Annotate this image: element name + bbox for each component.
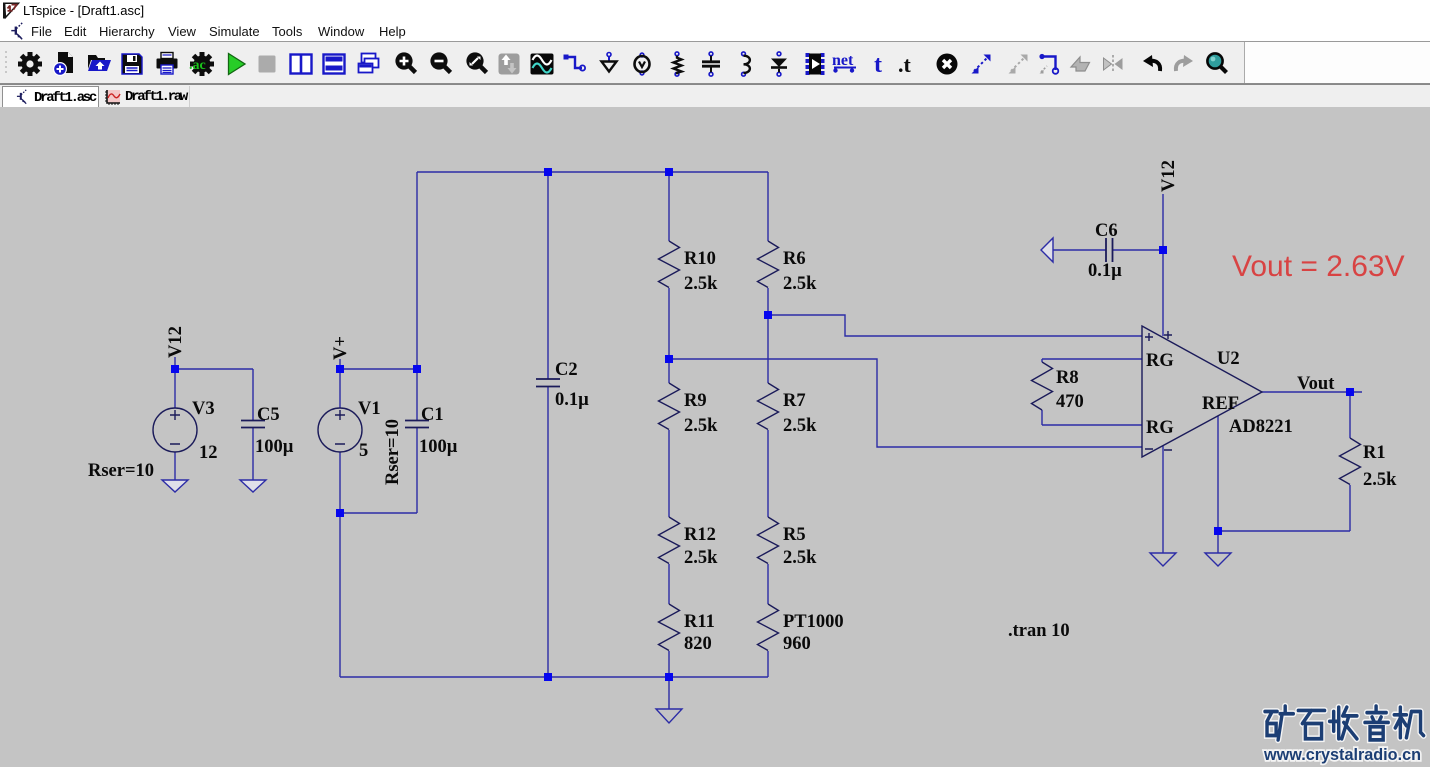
ground flag at C6 — [1041, 238, 1053, 262]
toolbar: .ac gear — [189, 51, 215, 77]
resistor PT1000 body — [758, 604, 779, 651]
toolbar: move — [968, 51, 994, 77]
toolbar: diode — [766, 51, 792, 77]
ground under REF — [1205, 553, 1231, 566]
svg-text:R6: R6 — [783, 249, 806, 269]
title bar — [0, 0, 1430, 21]
toolbar: inductor — [733, 51, 759, 77]
svg-text:C1: C1 — [421, 405, 444, 425]
svg-text:470: 470 — [1056, 392, 1084, 412]
svg-text:R8: R8 — [1056, 368, 1079, 388]
svg-text:RG: RG — [1146, 418, 1174, 438]
tab bar — [0, 84, 1430, 108]
toolbar: open — [86, 51, 112, 77]
resistor R10 body — [659, 241, 680, 288]
LTspice app logo — [2, 1, 21, 20]
wire V+ label stub and V1 top lead — [339, 359, 341, 408]
resistor R5 body — [758, 517, 779, 564]
toolbar: find — [1204, 51, 1230, 77]
toolbar: zoom in — [393, 51, 419, 77]
svg-text:2.5k: 2.5k — [783, 548, 817, 568]
svg-text:R12: R12 — [684, 525, 716, 545]
wire V3 node to C5 — [175, 368, 253, 370]
toolbar: text — [867, 51, 893, 77]
toolbar: net label — [832, 51, 858, 77]
svg-text:Rser=10: Rser=10 — [88, 461, 154, 481]
svg-text:R1: R1 — [1363, 443, 1386, 463]
toolbar: run — [223, 51, 249, 77]
ground under V3 — [162, 480, 188, 492]
wire V12 right rail — [1162, 194, 1164, 336]
svg-text:2.5k: 2.5k — [684, 274, 718, 294]
svg-text:0.1µ: 0.1µ — [555, 390, 589, 410]
svg-text:.ac: .ac — [189, 58, 206, 73]
svg-text:Vout: Vout — [1297, 374, 1335, 394]
wire V12 label stub and V3 top lead — [174, 357, 176, 408]
toolbar: print — [154, 51, 180, 77]
resistor R8 body — [1032, 362, 1053, 410]
toolbar: voltage source — [629, 51, 655, 77]
capacitor C2 plates — [536, 379, 560, 387]
svg-text:RG: RG — [1146, 351, 1174, 371]
wire REF pin down — [1217, 416, 1219, 553]
wire left divider column — [668, 172, 670, 677]
wire node R6R7 to op-amp plus input — [768, 315, 1142, 336]
svg-text:2.5k: 2.5k — [783, 274, 817, 294]
toolbar: zoom out — [428, 51, 454, 77]
svg-text:.t: .t — [898, 52, 912, 77]
wire C2 column — [547, 172, 549, 677]
toolbar: new schematic — [52, 51, 78, 77]
wire bottom ground rail — [340, 676, 768, 678]
node junction squares — [544, 168, 552, 176]
wire R1 bottom to REF node — [1218, 530, 1350, 532]
svg-text:2.5k: 2.5k — [684, 548, 718, 568]
wire V3 bottom lead — [174, 452, 176, 480]
toolbar: ground label — [596, 51, 622, 77]
toolbar: resistor — [664, 51, 690, 77]
wire node R10R9 to op-amp minus input — [669, 359, 1142, 447]
toolbar: zoom extents — [464, 51, 490, 77]
toolbar: redo (disabled) — [1171, 51, 1197, 77]
toolbar: drag — [1036, 51, 1062, 77]
capacitor C5 plates — [241, 421, 265, 428]
toolbar: spice directive — [895, 51, 921, 77]
toolbar: settings gear — [17, 51, 43, 77]
resistor R12 body — [659, 517, 680, 564]
resistor R9 body — [659, 383, 680, 430]
svg-text:V12: V12 — [166, 326, 186, 358]
svg-text:www.crystalradio.cn: www.crystalradio.cn — [1263, 745, 1421, 764]
svg-text:REF: REF — [1202, 394, 1239, 414]
svg-text:12: 12 — [199, 443, 218, 463]
toolbar: wire mode — [561, 51, 587, 77]
toolbar: pan (disabled) — [496, 51, 522, 77]
svg-text:R10: R10 — [684, 249, 716, 269]
svg-text:960: 960 — [783, 634, 811, 654]
wire C1 bottom to V1 bottom — [340, 512, 417, 514]
svg-text:C2: C2 — [555, 360, 578, 380]
svg-text:5: 5 — [359, 441, 368, 461]
op-amp U1 triangle — [1142, 326, 1262, 457]
wire C6 right to V12 rail — [1113, 249, 1164, 251]
watermark — [1263, 706, 1424, 764]
ground under C5 — [240, 480, 266, 492]
wire R1 leads — [1349, 392, 1351, 531]
wire op-amp output to Vout node — [1262, 391, 1362, 393]
svg-text:V12: V12 — [1159, 160, 1179, 192]
wire RG top to R8 — [1042, 359, 1142, 362]
wire right divider column — [767, 172, 769, 677]
toolbar — [0, 42, 1430, 84]
wire V+ node to C1 — [340, 368, 417, 370]
toolbar: tile horizontal — [321, 51, 347, 77]
voltage source V3 — [153, 408, 197, 452]
wire C5 leads — [252, 369, 254, 480]
toolbar: mirror (disabled) — [1100, 51, 1126, 77]
svg-text:PT1000: PT1000 — [783, 612, 844, 632]
toolbar: save — [119, 51, 145, 77]
svg-text:Vout = 2.63V: Vout = 2.63V — [1232, 250, 1405, 283]
svg-text:100µ: 100µ — [255, 437, 294, 457]
svg-text:100µ: 100µ — [419, 437, 458, 457]
resistor R1 body — [1340, 438, 1361, 485]
svg-text:V1: V1 — [358, 399, 381, 419]
toolbar: paste (disabled) — [1067, 51, 1093, 77]
toolbar: delete — [934, 51, 960, 77]
capacitor C6 plates — [1106, 238, 1113, 262]
wire V1 bottom lead — [339, 452, 341, 513]
svg-text:R7: R7 — [783, 391, 806, 411]
wire RG bottom to R8 — [1042, 410, 1142, 425]
wire op-amp V minus to ground — [1162, 446, 1164, 553]
wire top rail — [417, 171, 768, 173]
voltage source V1 — [318, 408, 362, 452]
resistor R6 body — [758, 241, 779, 288]
svg-text:820: 820 — [684, 634, 712, 654]
menu bar — [0, 21, 1430, 42]
svg-text:C5: C5 — [257, 405, 280, 425]
toolbar: copy (disabled) — [1005, 51, 1031, 77]
wire C6 left to ground flag — [1053, 249, 1106, 251]
svg-text:R5: R5 — [783, 525, 806, 545]
svg-text:.tran 10: .tran 10 — [1008, 621, 1070, 641]
wire V1 bottom down to ground rail — [339, 513, 341, 677]
op-amp input polarity marks — [1145, 331, 1172, 450]
svg-text:net: net — [832, 52, 854, 69]
capacitor C1 plates — [405, 421, 429, 428]
resistor R7 body — [758, 383, 779, 430]
svg-text:C6: C6 — [1095, 221, 1118, 241]
svg-text:2.5k: 2.5k — [1363, 470, 1397, 490]
svg-text:2.5k: 2.5k — [783, 416, 817, 436]
ground bottom rail — [668, 677, 670, 709]
svg-text:t: t — [874, 52, 882, 77]
ground under op-amp V minus — [1150, 553, 1176, 566]
svg-text:V+: V+ — [331, 336, 351, 360]
wire V+ rail to C1 column — [416, 172, 418, 513]
svg-text:V3: V3 — [192, 399, 215, 419]
toolbar: cascade — [355, 51, 381, 77]
toolbar: halt (disabled) — [254, 51, 280, 77]
toolbar: component — [802, 51, 828, 77]
toolbar: tile vertical — [288, 51, 314, 77]
svg-text:R11: R11 — [684, 612, 715, 632]
svg-text:U2: U2 — [1217, 349, 1240, 369]
resistor R11 body — [659, 604, 680, 651]
toolbar: undo — [1139, 51, 1165, 77]
toolbar: waveform — [529, 51, 555, 77]
svg-text:Rser=10: Rser=10 — [383, 419, 403, 485]
svg-text:0.1µ: 0.1µ — [1088, 261, 1122, 281]
svg-text:R9: R9 — [684, 391, 707, 411]
svg-text:2.5k: 2.5k — [684, 416, 718, 436]
svg-text:AD8221: AD8221 — [1229, 417, 1293, 437]
toolbar: capacitor — [698, 51, 724, 77]
